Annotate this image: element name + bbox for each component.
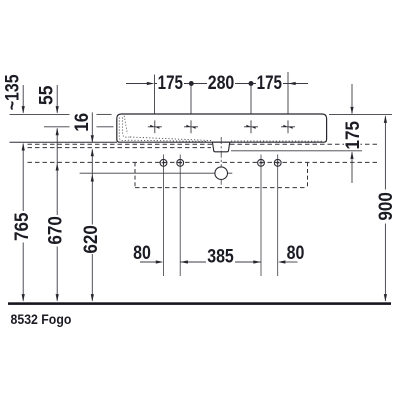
mounting hole line 3 (260, 155, 262, 277)
svg-text:175: 175 (158, 71, 184, 93)
basin inner wall dotted (left) (119, 118, 128, 141)
label 175 (right, vertical) (344, 120, 361, 150)
arrowhead down at L1 (22, 106, 25, 114)
dim dot at 251 (249, 81, 254, 86)
arrowhead left at x=277.7 (278, 260, 286, 263)
basin inner bottom dotted (right of drain) (231, 140, 322, 142)
svg-text:175: 175 (257, 71, 283, 93)
mounting hole 2 (177, 159, 184, 166)
svg-text:765: 765 (11, 213, 32, 242)
arrowhead down at basin top line (350, 107, 353, 115)
arrowhead down at floor (384, 294, 387, 302)
line: basin top level extended left (10, 113, 70, 115)
label 765 (14, 211, 31, 243)
arrowhead down at dashed D1 (91, 135, 94, 143)
wire: 175 top leader at x=352 (351, 84, 353, 114)
label 620 (83, 225, 100, 255)
svg-text:80: 80 (133, 242, 151, 264)
extension line x=251 (250, 84, 252, 115)
wire: down leader (91, 112, 93, 142)
drain centerline horizontal (80, 172, 233, 174)
mounting hole 1 (160, 159, 167, 166)
svg-text:80: 80 (287, 242, 305, 264)
dashed console bottom line D2 (28, 147, 212, 149)
faucet hole mark 1 (148, 120, 162, 133)
dashed wall fixing line D3 (28, 161, 379, 163)
svg-text:670: 670 (45, 216, 66, 245)
label 175 (left) (157, 75, 184, 91)
label 280 (207, 75, 235, 91)
basin outline (117, 114, 327, 142)
mounting hole 4 (274, 159, 281, 166)
wire: 900 dimension line (384, 116, 386, 189)
arrowhead right pointing left at x=288 (288, 82, 296, 85)
extension line x=191 (190, 84, 192, 115)
arrowhead up below dashed D2 (91, 149, 94, 157)
wire: 670 dimension line (56, 128, 58, 300)
svg-text:8532 Fogo: 8532 Fogo (11, 311, 72, 327)
wire: top dim line left tail with arrow (126, 83, 308, 85)
svg-text:175: 175 (342, 121, 363, 150)
label 385 (206, 249, 235, 265)
arrowhead down at floor (91, 294, 94, 302)
svg-text:~135: ~135 (1, 74, 23, 110)
arrowhead up below dashed wall line (56, 163, 59, 171)
basin inner corner dotted diagonal (124, 116, 127, 134)
basin inner bottom dotted slope (left of drain) (130, 137, 212, 141)
svg-text:620: 620 (80, 225, 101, 254)
arrowhead up below drain centerline (91, 174, 94, 182)
centerline through drain (220, 137, 222, 185)
wire: down leader (22, 85, 24, 113)
floor line (8, 302, 391, 305)
wire: 620 dimension line (91, 149, 93, 300)
svg-text:280: 280 (208, 72, 235, 94)
extension tick x=288 (287, 72, 289, 114)
svg-text:16: 16 (71, 113, 92, 132)
mounting hole 3 (258, 159, 265, 166)
mounting hole line 2 (179, 155, 181, 277)
dashed console top line D1 (28, 143, 379, 145)
arrowhead down at floor (56, 294, 59, 302)
arrowhead up below basin top line (384, 115, 387, 123)
svg-text:900: 900 (375, 192, 396, 221)
svg-text:55: 55 (35, 86, 57, 105)
svg-text:385: 385 (207, 245, 234, 267)
faucet hole mark 4 (281, 120, 295, 133)
mounting hole line 1 (163, 155, 165, 277)
drain outlet trapezoid (212, 142, 229, 152)
wire: 765 dimension line (22, 144, 24, 301)
arrowhead down at floor (22, 294, 25, 302)
basin top level line extended right (329, 113, 392, 115)
wire: right 80 dim line (282, 261, 298, 263)
wire: down leader (56, 85, 58, 113)
label 670 (48, 215, 65, 247)
arrowhead up below basin bottom line (22, 143, 25, 151)
arrowhead up at drain bottom line (350, 151, 353, 159)
arrowhead up below hole-line L2 (56, 128, 59, 136)
faucet hole mark 3 (244, 120, 258, 133)
dashed bracket rectangle right edge (307, 162, 309, 187)
label 175 (right) (256, 75, 283, 91)
wire: 385 dim line (180, 261, 261, 263)
faucet hole mark 2 (184, 120, 198, 133)
dim dot at 191 (189, 81, 194, 86)
wire: left 80 dim line (140, 261, 160, 263)
line: faucet hole level extended left (44, 126, 70, 128)
arrowhead left pointing right at x=154.5 (147, 82, 155, 85)
arrowhead right at x=163.5 (156, 260, 164, 263)
line: basin bottom level extended left (10, 141, 118, 143)
arrowhead down at L1 (56, 106, 59, 114)
wire: 175 bottom leader (351, 152, 353, 183)
extension tick x=154.5 (154, 75, 156, 115)
dashed bracket rectangle bottom edge (135, 187, 308, 189)
drain circle (215, 167, 228, 180)
dashed bracket rectangle left edge (134, 162, 136, 187)
arrowhead left at x=180.2 (180, 260, 188, 263)
mounting hole line 4 (277, 155, 279, 277)
arrowhead right at x=261 (253, 260, 260, 263)
drain bottom level line extended right (231, 150, 362, 152)
